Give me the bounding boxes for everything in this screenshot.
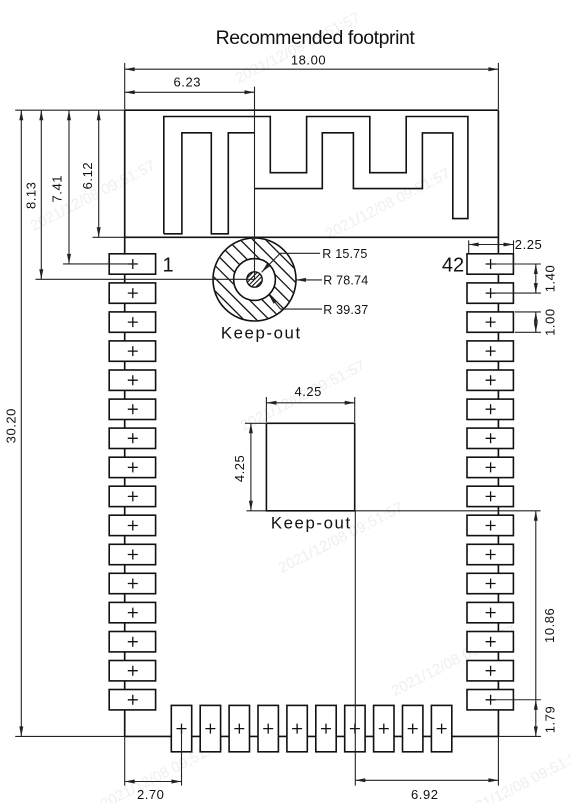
svg-text:2.25: 2.25	[515, 237, 543, 252]
square keep-out	[266, 423, 354, 511]
antenna meander trace inner outline	[164, 133, 255, 234]
pad 29 (right column)	[467, 632, 513, 652]
pad 16 (left column)	[109, 690, 155, 710]
extension line above module top-left corner	[124, 63, 126, 110]
pad 4 (left column)	[109, 341, 155, 361]
dimension 1.79	[534, 700, 538, 710]
svg-text:4.25: 4.25	[232, 455, 247, 483]
svg-text:6.92: 6.92	[411, 787, 439, 802]
pad 3 (left column)	[109, 312, 155, 332]
dimension 4.25 horizontal	[266, 402, 354, 404]
leader R 39.37	[269, 295, 322, 309]
dimension 6.12	[98, 110, 100, 237]
svg-text:30.20: 30.20	[3, 408, 18, 443]
pad 13 (left column)	[109, 602, 155, 622]
svg-text:R 39.37: R 39.37	[323, 303, 368, 317]
pad 27 (right column)	[467, 690, 513, 710]
module outline left edge	[124, 110, 126, 736]
dimension 7.41	[68, 110, 70, 264]
dimension 8.13	[40, 110, 42, 279]
extension lines above square keep-out	[265, 397, 267, 422]
keep-out boundary line left extension	[246, 510, 266, 512]
extension line through pad 17	[181, 729, 183, 786]
bottom-left extension line	[15, 735, 125, 737]
pad 12 (left column)	[109, 573, 155, 593]
pad 5 (left column)	[109, 370, 155, 390]
svg-text:R 15.75: R 15.75	[322, 247, 367, 261]
svg-text:6.12: 6.12	[80, 162, 95, 190]
svg-text:Keep-out: Keep-out	[271, 513, 352, 532]
extension lines pad 40 edges	[515, 311, 541, 313]
pad 25 (bottom row)	[403, 705, 423, 751]
dimension 2.70	[125, 781, 182, 783]
antenna area bottom border	[125, 236, 499, 238]
dimension 6.92	[355, 779, 498, 781]
pad 31 (right column)	[467, 573, 513, 593]
bottom-right extension line	[498, 735, 541, 737]
pad 24 (bottom row)	[374, 705, 394, 751]
svg-text:18.00: 18.00	[291, 53, 326, 68]
svg-text:R 78.74: R 78.74	[323, 274, 368, 288]
pad 22 (bottom row)	[316, 705, 336, 751]
svg-text:Recommended footprint: Recommended footprint	[216, 27, 416, 49]
extension line through pad 23 / square keep-out	[354, 511, 356, 786]
module outline right edge	[497, 110, 499, 736]
pad 39 (right column)	[467, 341, 513, 361]
pad 28 (right column)	[467, 661, 513, 681]
pad 42 (right column)	[467, 254, 513, 274]
pad 7 (left column)	[109, 428, 155, 448]
pad 9 (left column)	[109, 486, 155, 506]
module outline bottom edge	[125, 735, 499, 737]
extension line below module bottom-right corner	[497, 736, 499, 785]
pad 38 (right column)	[467, 370, 513, 390]
top-left extension line	[15, 109, 125, 111]
pad 18 (bottom row)	[200, 705, 220, 751]
extension lines left of square keep-out	[245, 422, 266, 424]
pad 35 (right column)	[467, 457, 513, 477]
pad 1 (left column)	[109, 254, 155, 274]
pad 26 (bottom row)	[431, 705, 451, 751]
pad 36 (right column)	[467, 428, 513, 448]
extension line pad 27 center	[491, 699, 541, 701]
svg-text:1: 1	[162, 254, 173, 276]
extension line to via center (8.13)	[36, 278, 255, 280]
pad 33 (right column)	[467, 515, 513, 535]
extension line pad 41 center	[491, 292, 541, 294]
antenna feed extension line (6.23)	[254, 87, 256, 280]
dimension 18.00	[125, 68, 499, 70]
dimension 10.86	[535, 511, 537, 737]
dimension 2.25	[469, 244, 514, 246]
svg-text:4.25: 4.25	[294, 384, 322, 399]
svg-text:1.40: 1.40	[542, 265, 557, 293]
svg-text:7.41: 7.41	[50, 175, 65, 203]
pad 14 (left column)	[109, 632, 155, 652]
module outline top edge	[125, 109, 499, 111]
svg-text:Keep-out: Keep-out	[221, 323, 302, 342]
svg-text:8.13: 8.13	[23, 182, 38, 210]
extension line below module bottom-left corner	[124, 736, 126, 785]
pad 11 (left column)	[109, 544, 155, 564]
dimension 6.23	[125, 91, 255, 93]
extension line at antenna border (6.12)	[93, 236, 125, 238]
pad 41 (right column)	[467, 283, 513, 303]
pad 10 (left column)	[109, 515, 155, 535]
pad 37 (right column)	[467, 399, 513, 419]
leader R 15.75	[262, 253, 320, 272]
keep-out boundary line right extension	[355, 510, 541, 512]
leader R 78.74	[296, 279, 322, 281]
pad 8 (left column)	[109, 457, 155, 477]
pad 23 (bottom row)	[345, 705, 365, 751]
antenna meander trace outer outline	[164, 117, 468, 234]
svg-text:42: 42	[442, 254, 464, 276]
pad 40 (right column)	[467, 312, 513, 332]
pad 19 (bottom row)	[229, 705, 249, 751]
pad 32 (right column)	[467, 544, 513, 564]
extension line to pad 1 center (7.41)	[63, 263, 138, 265]
extension line above module top-right corner	[497, 63, 499, 110]
svg-text:1.79: 1.79	[543, 706, 558, 734]
extension line pad 42 center	[491, 263, 541, 265]
pad 17 (bottom row)	[171, 705, 191, 751]
svg-text:1.00: 1.00	[542, 308, 557, 336]
pad 15 (left column)	[109, 661, 155, 681]
circular keep-out (hatched annulus and drill)	[195, 130, 315, 428]
svg-text:10.86: 10.86	[542, 608, 557, 643]
extension lines above pad 42	[468, 240, 470, 253]
dimension 1.00	[535, 312, 537, 332]
pad 30 (right column)	[467, 602, 513, 622]
pad 20 (bottom row)	[258, 705, 278, 751]
pad 34 (right column)	[467, 486, 513, 506]
dimension 1.40	[535, 264, 537, 293]
pad 6 (left column)	[109, 399, 155, 419]
pad 2 (left column)	[109, 283, 155, 303]
dimension 30.20	[20, 110, 22, 736]
dimension 4.25 vertical	[250, 423, 252, 511]
svg-text:6.23: 6.23	[174, 75, 202, 90]
svg-text:2.70: 2.70	[137, 787, 165, 802]
pad 21 (bottom row)	[287, 705, 307, 751]
